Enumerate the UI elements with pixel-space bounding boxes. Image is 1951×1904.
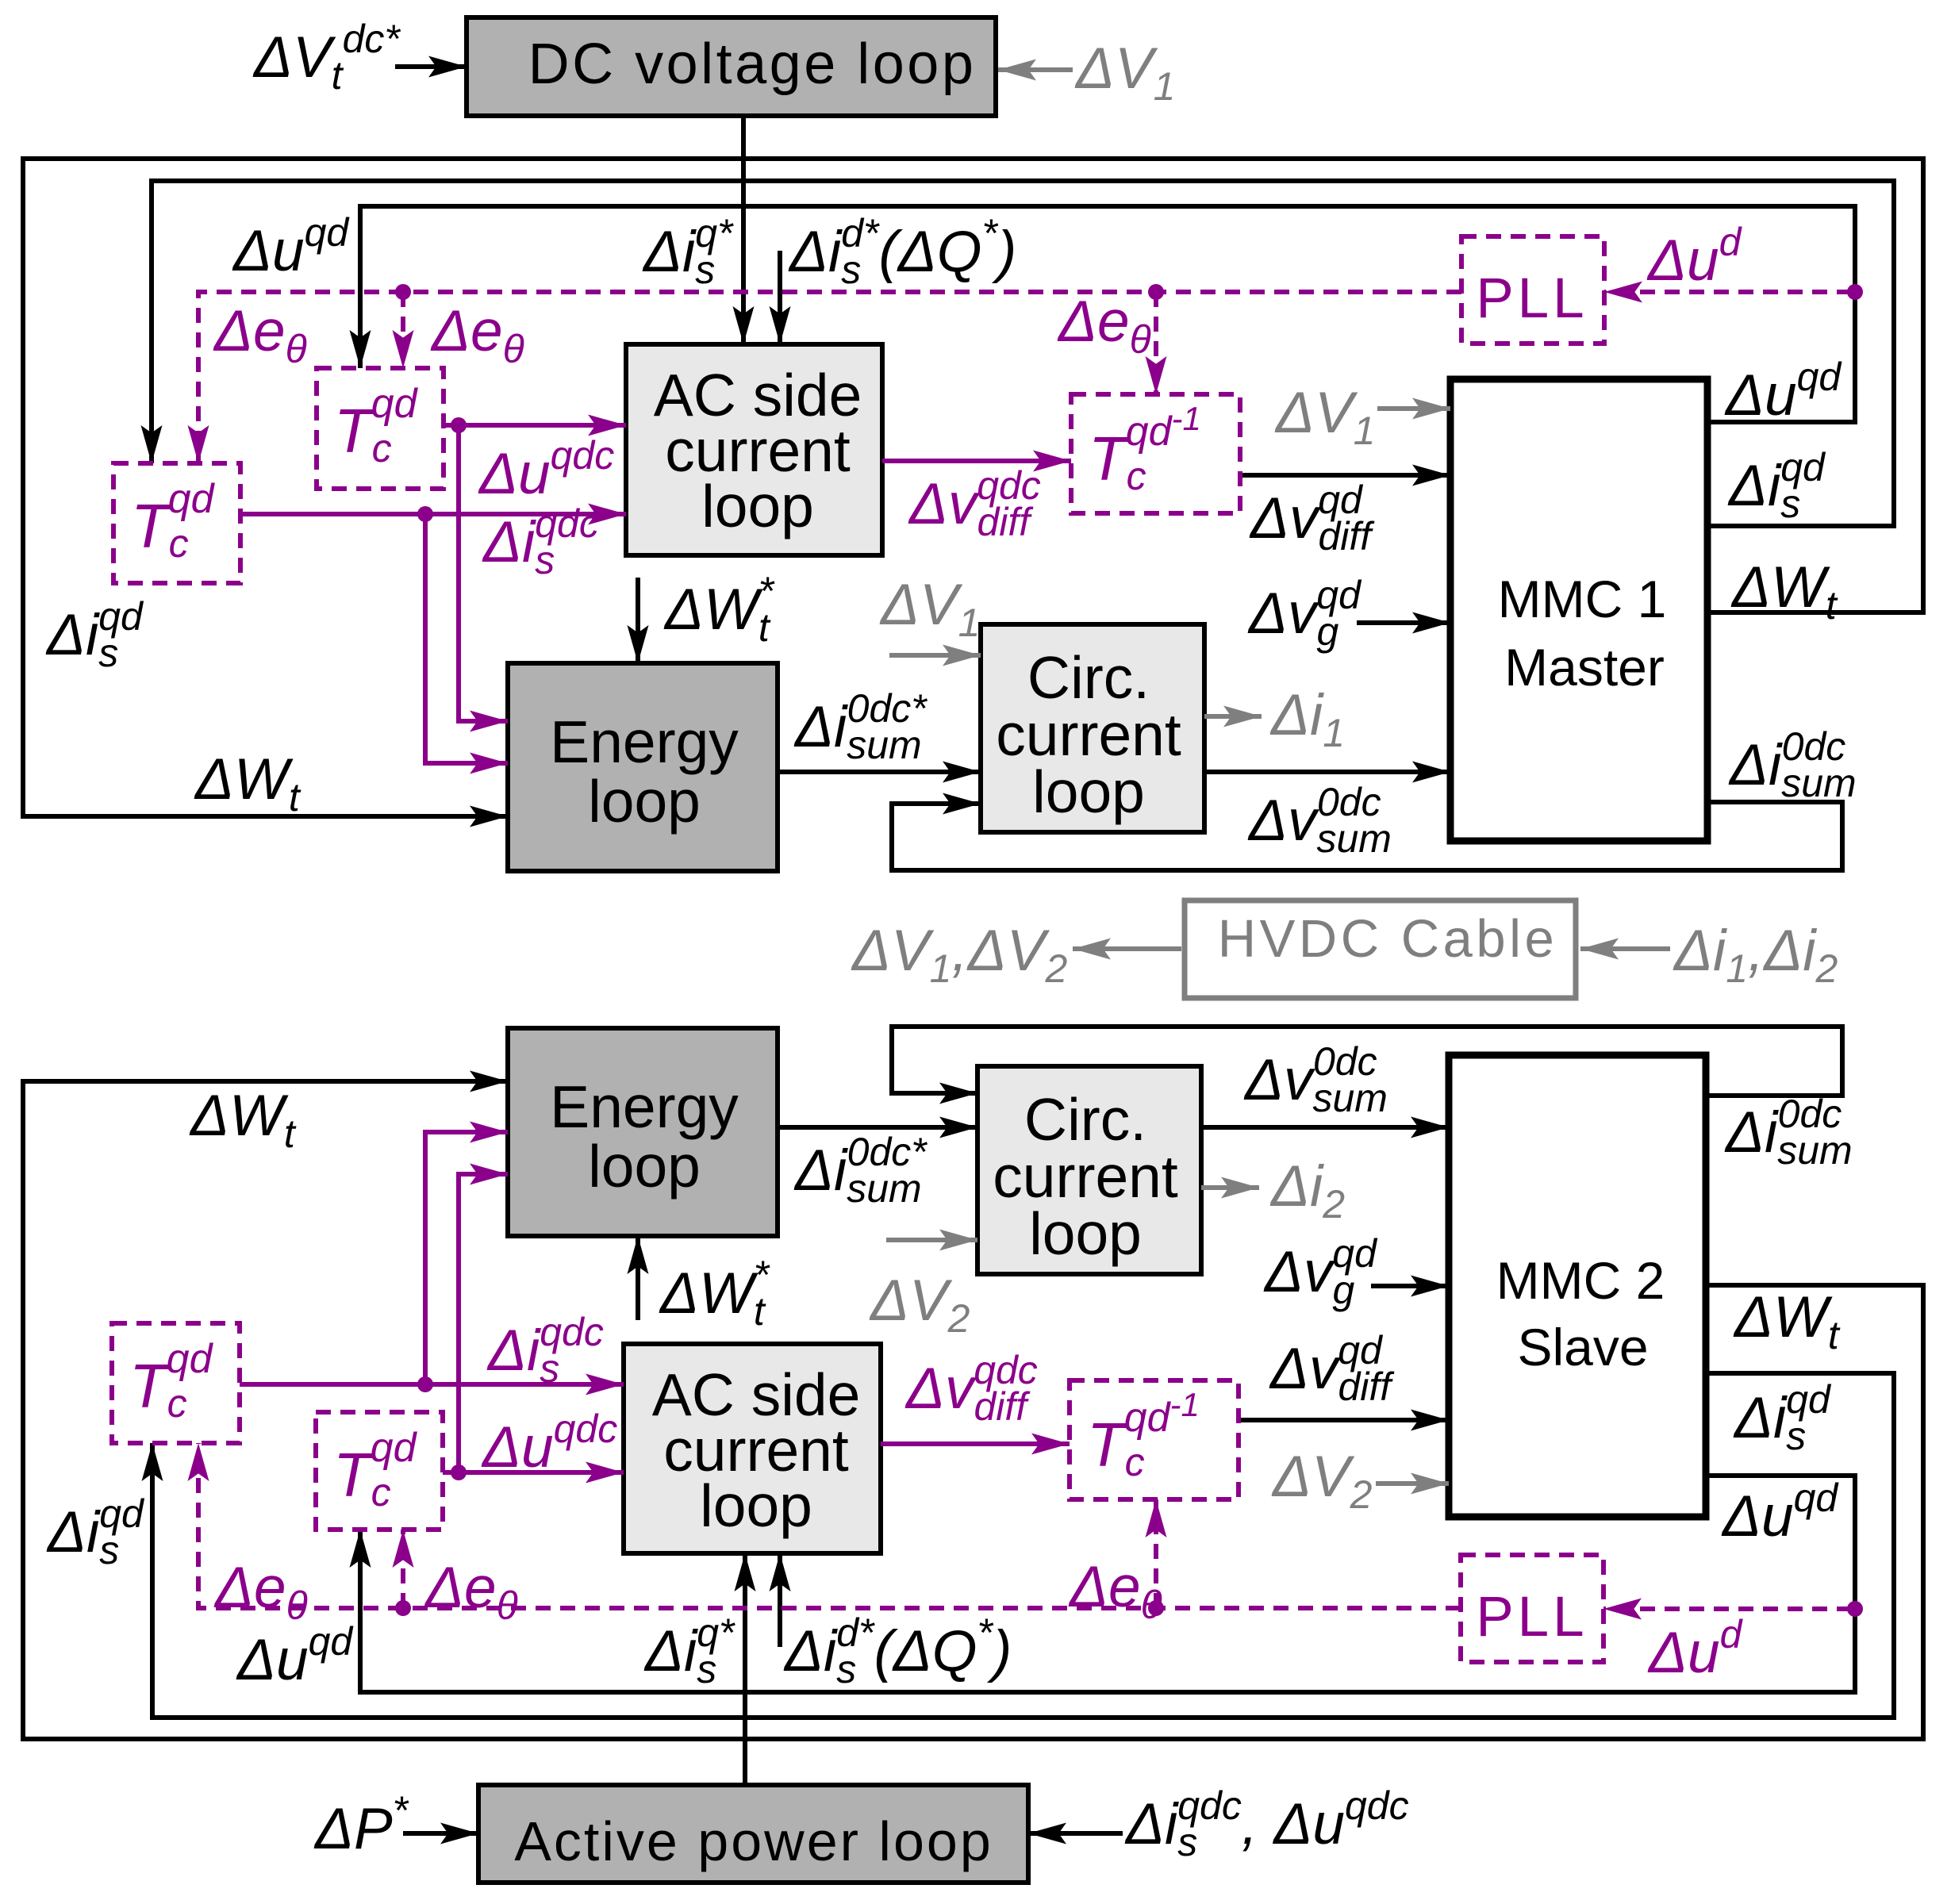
svg-text:Δi1,Δi2: Δi1,Δi2 xyxy=(1673,919,1838,991)
svg-text:Δvdiffqdc: Δvdiffqdc xyxy=(904,1348,1038,1429)
svg-text:ΔWt: ΔWt xyxy=(194,747,301,820)
svg-text:Δvdiffqdc: Δvdiffqdc xyxy=(908,463,1041,544)
svg-text:DC voltage loop: DC voltage loop xyxy=(528,33,977,96)
svg-text:Δvdiffqd: Δvdiffqd xyxy=(1249,478,1375,559)
svg-text:Slave: Slave xyxy=(1517,1318,1648,1376)
svg-text:loop: loop xyxy=(1032,758,1145,825)
svg-text:Δvsum0dc: Δvsum0dc xyxy=(1247,780,1392,861)
svg-text:Δisum0dc: Δisum0dc xyxy=(1724,1092,1853,1173)
svg-text:loop: loop xyxy=(1029,1200,1142,1267)
svg-text:MMC 2: MMC 2 xyxy=(1496,1251,1665,1310)
svg-text:loop: loop xyxy=(588,1133,701,1200)
svg-text:Energy: Energy xyxy=(550,708,739,775)
svg-text:ΔWt*: ΔWt* xyxy=(659,1253,770,1334)
svg-text:Active power loop: Active power loop xyxy=(514,1810,993,1872)
svg-text:loop: loop xyxy=(701,473,814,539)
svg-text:HVDC Cable: HVDC Cable xyxy=(1218,909,1558,969)
svg-text:ΔWt: ΔWt xyxy=(1730,555,1838,628)
svg-text:Δisum0dc*: Δisum0dc* xyxy=(793,686,927,767)
svg-text:ΔV1,ΔV2: ΔV1,ΔV2 xyxy=(851,919,1067,991)
svg-text:Δvdiffqd: Δvdiffqd xyxy=(1269,1328,1395,1409)
svg-text:Δisum0dc: Δisum0dc xyxy=(1728,724,1857,805)
svg-text:MMC 1: MMC 1 xyxy=(1498,570,1667,628)
svg-text:PLL: PLL xyxy=(1476,267,1588,330)
svg-text:ΔWt*: ΔWt* xyxy=(663,569,775,650)
svg-text:ΔWt: ΔWt xyxy=(189,1084,297,1156)
svg-text:loop: loop xyxy=(700,1472,812,1539)
svg-text:PLL: PLL xyxy=(1476,1586,1588,1649)
svg-text:Δisum0dc*: Δisum0dc* xyxy=(793,1130,927,1211)
svg-text:loop: loop xyxy=(588,768,701,835)
svg-text:Energy: Energy xyxy=(550,1073,739,1140)
svg-text:ΔWt: ΔWt xyxy=(1733,1285,1841,1357)
svg-text:Δvsum0dc: Δvsum0dc xyxy=(1243,1039,1388,1120)
svg-text:Master: Master xyxy=(1504,638,1665,697)
